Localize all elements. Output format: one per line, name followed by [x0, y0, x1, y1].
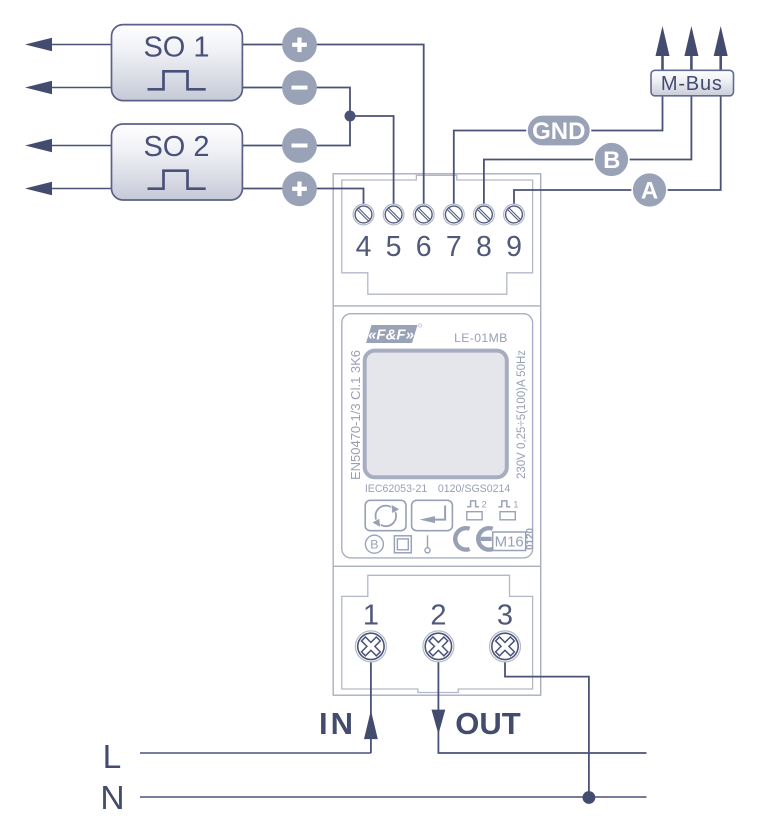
svg-text:N: N: [100, 780, 124, 817]
svg-text:M-Bus: M-Bus: [661, 73, 723, 95]
wire SO1- / SO2- common: [238, 88, 350, 146]
screw terminal 5: [383, 204, 404, 225]
LED pulse 1 indicator: [498, 500, 518, 520]
node B: [594, 142, 629, 177]
arrow out SO1 line 2: [25, 81, 112, 94]
wire N: [140, 796, 647, 798]
svg-text:2: 2: [482, 500, 487, 511]
temperature probe symbol: [425, 535, 430, 553]
screw terminal 6: [413, 204, 434, 225]
M-Bus arrow 3: [714, 26, 728, 96]
svg-text:IEC62053-21 0120/SGS0214: IEC62053-21 0120/SGS0214: [365, 483, 511, 495]
svg-text:L: L: [103, 739, 122, 776]
terminal polarity - (SO1): [282, 70, 317, 105]
LED pulse 2 indicator: [467, 500, 487, 520]
M-Bus connector label: [651, 70, 734, 96]
pulse receiver SO1: [112, 25, 243, 101]
terminal polarity + (SO2): [282, 171, 317, 206]
svg-text:LE-01MB: LE-01MB: [454, 331, 508, 345]
M-Bus arrow 1: [656, 26, 670, 96]
meter LE-01MB body: [333, 174, 541, 695]
arrow out SO1 line 1: [25, 38, 112, 51]
meter top divider: [333, 305, 541, 307]
arrow out SO2 line 2: [25, 182, 112, 195]
svg-text:EN50470-1/3 Cl.1 3K6: EN50470-1/3 Cl.1 3K6: [348, 350, 363, 480]
meter top terminal cover outline: [342, 175, 533, 294]
double insulation symbol: [394, 536, 411, 553]
wire SO1+ to terminal 6: [238, 45, 424, 205]
wire terminal 7 to GND to M-Bus: [454, 96, 663, 204]
svg-text:1: 1: [363, 600, 379, 632]
svg-text:6: 6: [416, 231, 432, 263]
M-Bus arrow 2: [684, 26, 698, 96]
LCD display: [365, 351, 507, 478]
junction dot: [345, 111, 356, 122]
accuracy class B symbol: [365, 535, 383, 553]
wire junction to terminal 5: [350, 116, 394, 204]
svg-text:7: 7: [446, 231, 462, 263]
screw terminal 4: [353, 204, 374, 225]
svg-text:5: 5: [386, 231, 402, 263]
meter bottom divider: [333, 565, 541, 567]
wire terminal 2 to OUT: [438, 660, 646, 753]
svg-text:SO 1: SO 1: [143, 32, 209, 64]
terminal polarity + (SO1): [282, 27, 317, 62]
svg-text:3: 3: [497, 600, 513, 632]
screw terminal 3: [490, 631, 521, 662]
meter front face: [342, 314, 533, 558]
svg-text:1: 1: [513, 500, 518, 511]
F&F logo: [366, 324, 422, 344]
svg-text:8: 8: [476, 231, 492, 263]
node GND: [527, 115, 591, 146]
button enter: [412, 500, 453, 530]
svg-text:IN: IN: [319, 706, 356, 741]
svg-text:GND: GND: [532, 118, 585, 145]
M16 marking: [493, 532, 526, 551]
arrow out SO2 line 1: [25, 139, 112, 152]
wire SO2+ to terminal 4: [238, 189, 364, 205]
wire terminal 1 to L: [370, 660, 372, 753]
screw terminal 8: [474, 204, 495, 225]
wire terminal 8 to B to M-Bus: [484, 96, 692, 204]
svg-text:«F&F»: «F&F»: [368, 327, 414, 344]
svg-text:9: 9: [506, 231, 522, 263]
arrow OUT: [432, 710, 446, 735]
wire terminal 3 to N: [505, 660, 589, 797]
svg-text:M16: M16: [495, 533, 524, 550]
wire terminal 9 to A to M-Bus: [514, 96, 721, 204]
wire L: [140, 752, 371, 754]
pulse receiver SO2: [112, 124, 243, 200]
svg-text:B: B: [603, 147, 620, 174]
screw terminal 2: [423, 631, 454, 662]
screw terminal 1: [355, 631, 386, 662]
node A: [632, 173, 667, 208]
svg-text:2: 2: [430, 600, 446, 632]
svg-text:SO 2: SO 2: [143, 131, 209, 163]
svg-text:4: 4: [356, 231, 372, 263]
terminal polarity - (SO2): [282, 128, 317, 163]
arrow IN: [364, 710, 378, 739]
svg-text:A: A: [641, 178, 658, 205]
button cycle: [365, 500, 406, 530]
svg-text:230V 0,25÷5(100)A 50Hz: 230V 0,25÷5(100)A 50Hz: [516, 350, 528, 479]
svg-text:B: B: [370, 538, 378, 552]
svg-text:OUT: OUT: [455, 706, 521, 741]
svg-text:0120: 0120: [525, 528, 536, 550]
meter bottom terminal cover outline: [342, 575, 533, 692]
junction dot N: [583, 791, 596, 804]
screw terminal 9: [504, 204, 525, 225]
CE mark: [453, 526, 493, 552]
screw terminal 7: [443, 204, 464, 225]
